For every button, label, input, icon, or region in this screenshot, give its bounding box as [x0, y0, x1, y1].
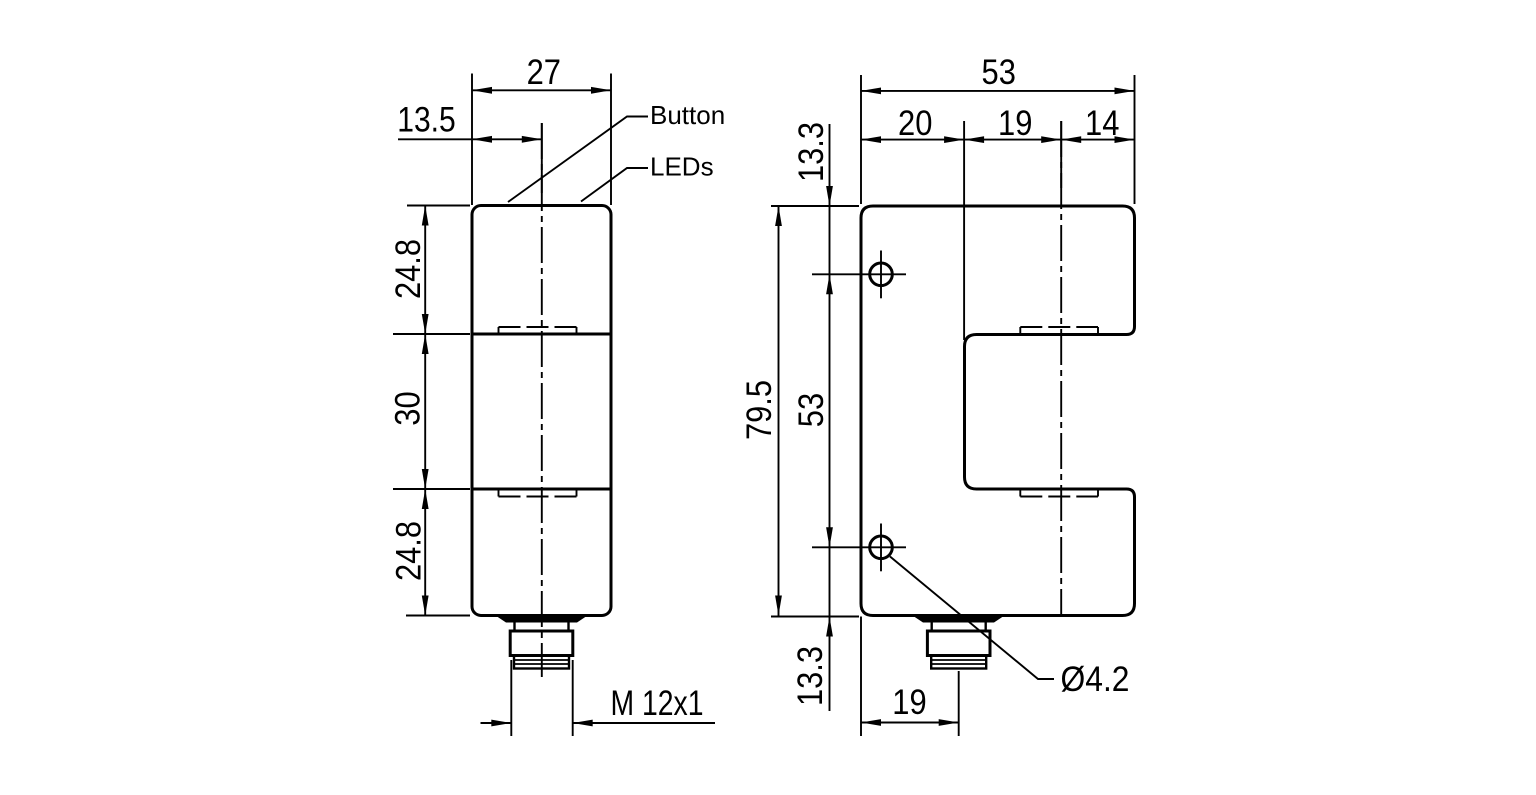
- connector neck (side): [931, 623, 933, 632]
- connector thread section (front): [514, 656, 569, 669]
- Button label and leader: [508, 117, 648, 203]
- lower LED window (side): [1020, 489, 1098, 497]
- svg-text:Ø4.2: Ø4.2: [1061, 660, 1130, 699]
- dimension 53 top: [861, 75, 1135, 204]
- LEDs label and leader: [581, 168, 648, 202]
- mounting hole bottom: [870, 536, 893, 559]
- dimension 13.5: [398, 138, 542, 140]
- lower LED window (front): [499, 489, 577, 497]
- dimension 19 bottom: [861, 617, 959, 737]
- connector neck (front): [513, 623, 515, 632]
- svg-text:30: 30: [389, 391, 428, 425]
- svg-text:19: 19: [998, 104, 1032, 143]
- dimensions 20 / 19 / 14: [861, 121, 1135, 340]
- mounting hole top: [870, 263, 893, 286]
- front body outline: [472, 206, 611, 616]
- centre line (front): [541, 123, 543, 193]
- optical axis centre line (side): [1060, 121, 1062, 188]
- connector thread section (side): [931, 656, 986, 669]
- left dimension chain 24.8 / 30 / 24.8: [393, 206, 470, 616]
- connector base band (front): [497, 617, 586, 623]
- svg-text:24.8: 24.8: [389, 239, 428, 299]
- leader and label Ø4.2: [890, 557, 1054, 680]
- connector base band (side): [914, 617, 1003, 623]
- svg-text:LEDs: LEDs: [650, 152, 714, 182]
- svg-text:13.3: 13.3: [791, 646, 830, 706]
- svg-text:79.5: 79.5: [740, 380, 779, 440]
- svg-text:Button: Button: [650, 100, 725, 130]
- dimension M 12x1: [481, 660, 716, 736]
- svg-text:53: 53: [982, 53, 1016, 92]
- section line 2: [472, 488, 611, 491]
- svg-text:13.3: 13.3: [792, 122, 831, 182]
- svg-text:20: 20: [898, 104, 932, 143]
- svg-text:27: 27: [527, 53, 561, 92]
- dimension 27: [472, 74, 611, 206]
- upper LED window (front): [499, 327, 577, 334]
- section line 1: [472, 333, 611, 336]
- upper LED window (side): [1020, 327, 1098, 335]
- vertical chain 13.3 / 53 / 13.3: [771, 124, 859, 711]
- connector plug body (front): [510, 631, 573, 656]
- svg-text:24.8: 24.8: [390, 521, 429, 581]
- svg-text:53: 53: [792, 393, 831, 427]
- side body outline (C shape): [861, 206, 1135, 616]
- connector plug body (side): [927, 631, 990, 656]
- svg-text:13.5: 13.5: [397, 101, 456, 140]
- dimension 79.5: [778, 206, 780, 616]
- svg-text:14: 14: [1085, 104, 1119, 143]
- svg-text:19: 19: [892, 683, 926, 722]
- svg-text:M 12x1: M 12x1: [611, 684, 704, 723]
